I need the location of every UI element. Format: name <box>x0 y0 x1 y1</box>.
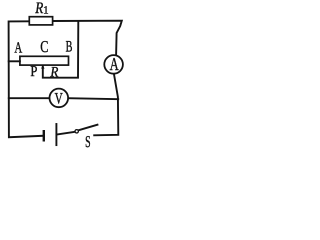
svg-text:P: P <box>30 64 37 80</box>
slider arrowhead P <box>41 65 44 69</box>
battery long (positive) plate <box>55 124 57 145</box>
rheostat R (slide wire box A-C-B) <box>20 56 69 65</box>
svg-text:A: A <box>14 40 22 57</box>
switch S pivot <box>75 130 78 133</box>
svg-text:1: 1 <box>43 4 49 16</box>
svg-text:V: V <box>55 90 63 107</box>
resistor R1 <box>29 17 52 25</box>
wire: top-left + left side + bottom-left run <box>9 21 43 137</box>
svg-text:R: R <box>34 0 43 17</box>
wire: slider P stem down, right, and up to top wire <box>43 21 79 77</box>
switch S blade <box>78 125 97 131</box>
wire: voltmeter left lead <box>9 97 50 99</box>
voltmeter V circle <box>50 89 69 108</box>
svg-text:R: R <box>50 65 59 81</box>
wire: voltmeter right lead to right branch <box>68 98 118 99</box>
wire: ammeter bottom to bottom-right corner to switch contact <box>94 74 118 135</box>
svg-text:S: S <box>85 132 91 151</box>
wire: top right of R1 to top-right corner, down to ammeter <box>53 21 122 55</box>
svg-text:A: A <box>110 54 119 74</box>
wire: left wire to rheostat A end <box>9 60 20 62</box>
battery: wire from long plate to switch pivot <box>57 132 75 135</box>
ammeter A1 circle <box>104 55 123 74</box>
svg-text:B: B <box>66 38 73 55</box>
battery short (negative) plate <box>43 131 45 140</box>
svg-text:C: C <box>40 37 48 56</box>
